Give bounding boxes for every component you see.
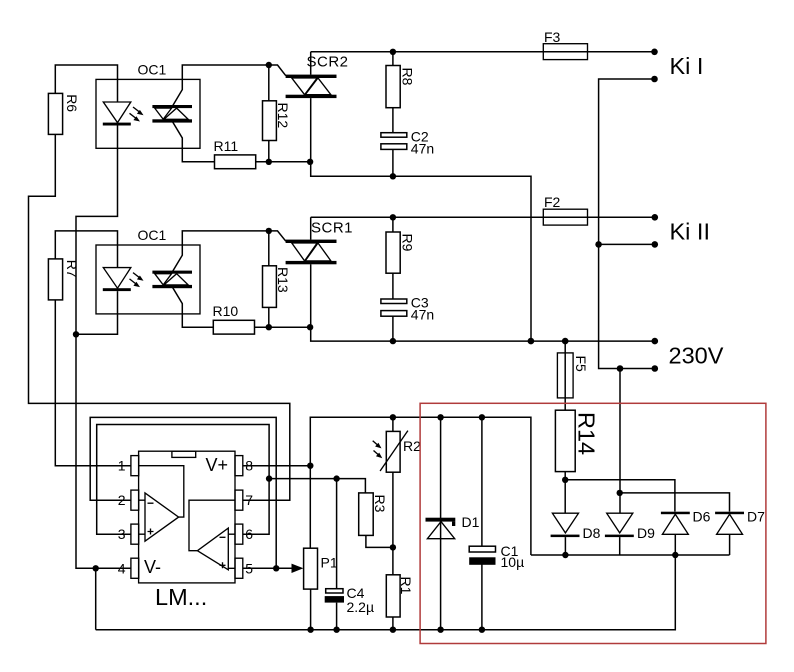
P1 wiper arrow <box>292 564 304 573</box>
resistor R7 <box>48 259 79 300</box>
wire pin 3 loop to pin 6 <box>97 425 269 535</box>
zener diode D1 <box>426 417 480 629</box>
wire rectifier bottom rail <box>531 554 730 556</box>
svg-text:7: 7 <box>245 492 253 508</box>
svg-text:R13: R13 <box>275 267 291 293</box>
pin 3 <box>118 524 139 544</box>
wire SCR1 anode riser and rail to Ki II <box>311 217 655 239</box>
svg-text:D8: D8 <box>583 525 601 541</box>
svg-text:R8: R8 <box>400 68 416 86</box>
svg-text:R7: R7 <box>64 260 80 278</box>
svg-text:R14: R14 <box>574 412 600 455</box>
svg-text:4: 4 <box>118 560 126 576</box>
svg-text:D6: D6 <box>693 508 711 524</box>
resistor R3 <box>359 493 393 548</box>
resistor R13 <box>263 231 292 327</box>
svg-text:D9: D9 <box>637 525 655 541</box>
svg-text:230V: 230V <box>669 342 724 368</box>
LED light arrows <box>130 273 144 288</box>
node Ki II terminals <box>595 214 658 248</box>
node 230V terminals <box>528 338 658 372</box>
svg-text:P1: P1 <box>321 554 338 570</box>
LED light arrows <box>130 107 144 122</box>
pin 2 <box>118 490 139 510</box>
wire pin 2 feedback loop to pin 5 node <box>90 417 276 568</box>
pin 6 <box>235 524 253 544</box>
junction dots rectifier <box>562 477 679 559</box>
red highlight box <box>420 403 766 643</box>
triac inside OC1 top <box>152 105 192 123</box>
svg-text:Ki I: Ki I <box>670 53 704 79</box>
resistor R6 <box>48 93 79 134</box>
potentiometer P1 <box>304 548 338 630</box>
wire OC1#2 triac top to SCR1 gate rail <box>172 231 268 272</box>
resistor R9 <box>386 232 416 273</box>
optocoupler OC1 (bottom) <box>96 227 200 314</box>
triac SCR1 <box>286 220 353 265</box>
svg-text:F5: F5 <box>573 356 589 373</box>
wire R9 to C3 <box>392 273 394 299</box>
junction dots channel 1 <box>266 49 397 180</box>
svg-text:V+: V+ <box>206 455 229 475</box>
node Ki I terminals <box>651 49 658 83</box>
resistor R12 <box>263 65 292 162</box>
svg-text:1: 1 <box>118 458 126 474</box>
resistor R10 <box>213 303 255 334</box>
optocoupler OC1 (top) <box>96 62 200 149</box>
wire pin 6/3 node tap to R3 top <box>269 479 365 493</box>
wire C2 bottom <box>392 149 394 176</box>
wire R14 bottom to D8 top node <box>564 472 566 514</box>
svg-text:47n: 47n <box>411 307 434 323</box>
wire R7 bottom to pin 1 of LM <box>55 300 131 466</box>
op-amp A triangle <box>139 466 184 542</box>
wire R9 top <box>392 217 394 232</box>
wire R6 top to OC1 LED anode <box>55 65 117 102</box>
junction dots channel 2 <box>73 214 396 344</box>
wire D9 node to D7 top <box>620 493 730 512</box>
svg-text:F3: F3 <box>544 29 561 45</box>
wire V+ node riser and top rail <box>310 417 531 555</box>
svg-text:V-: V- <box>144 557 161 577</box>
wire C3 bottom <box>392 316 394 341</box>
wire D8 node to D6 top <box>565 480 675 512</box>
wire OC1 triac top to SCR2 gate rail <box>172 65 268 106</box>
triac inside OC1 bottom <box>152 271 192 289</box>
svg-text:OC1: OC1 <box>138 62 167 78</box>
svg-text:OC1: OC1 <box>138 227 167 243</box>
pin 4 <box>118 558 139 578</box>
junction dots IC area <box>93 463 340 572</box>
wire R8 to C2 <box>392 108 394 133</box>
resistor R11 <box>214 138 256 169</box>
svg-text:R6: R6 <box>64 94 80 112</box>
svg-text:R2: R2 <box>403 438 421 454</box>
wire 230V to F5 <box>564 341 566 410</box>
triac SCR2 <box>286 54 349 99</box>
pin 5 <box>235 558 253 578</box>
fuse F2 <box>543 194 587 225</box>
wire SCR1 gate <box>269 231 286 241</box>
svg-text:47n: 47n <box>411 140 434 156</box>
wire linking lower terminals (Ki I / Ki II / 230V) <box>599 79 655 369</box>
svg-text:SCR1: SCR1 <box>311 220 353 237</box>
svg-text:R3: R3 <box>372 495 388 513</box>
wire LED cathode chain down-left to pin 4 <box>76 126 131 569</box>
capacitor C1 10u <box>469 417 524 629</box>
junction dots red box area <box>307 414 485 633</box>
wire R10 to SCR1 cathode node <box>255 326 311 328</box>
wire R7 top to OC1 LED anode <box>55 231 117 268</box>
LED of OC1 bottom <box>103 268 131 292</box>
svg-text:R1: R1 <box>398 577 414 595</box>
svg-text:R9: R9 <box>400 234 416 252</box>
fuse F3 <box>543 29 587 60</box>
photoresistor R2 <box>373 417 421 575</box>
wire pin 4 junction riser to bottom rail <box>95 568 97 629</box>
wire SCR2 gate <box>269 65 286 76</box>
wire from 230V lower terminal down to D9 <box>619 369 621 514</box>
wire OC1 triac bottom to R11 <box>172 122 214 162</box>
diode D9 <box>605 513 655 555</box>
wire SCR1 cathode down and 230V rail <box>311 264 655 341</box>
wire OC1#2 triac bottom to R10 <box>172 287 213 327</box>
diode D7 <box>715 508 765 555</box>
capacitor C4 2.2u <box>325 479 374 630</box>
svg-text:SCR2: SCR2 <box>307 54 349 71</box>
wire pin 8 to V+ node <box>243 465 310 467</box>
resistor R14 <box>555 410 599 471</box>
svg-text:R12: R12 <box>275 103 291 129</box>
pin 8 <box>235 456 253 476</box>
op-amp IC U1 body LM <box>139 451 235 610</box>
svg-text:Ki II: Ki II <box>670 219 710 245</box>
wire R8 top <box>392 52 394 66</box>
wire pin 5 to P1 wiper <box>243 567 295 569</box>
pin 1 <box>118 456 139 476</box>
pin 7 <box>235 490 253 510</box>
fuse F5 <box>557 353 589 398</box>
svg-text:R10: R10 <box>213 303 239 319</box>
svg-text:2.2µ: 2.2µ <box>347 599 375 615</box>
wire SCR2 cathode down and snubber rail right <box>311 98 531 341</box>
wire R6 bottom to pin 7 of LM <box>29 134 290 500</box>
capacitor C3 47n <box>381 295 434 323</box>
diode D8 <box>551 513 601 555</box>
LED of OC1 top <box>103 102 131 126</box>
capacitor C2 47n <box>381 128 434 156</box>
svg-text:F2: F2 <box>544 194 561 210</box>
diode D6 <box>661 508 711 555</box>
svg-text:R11: R11 <box>214 138 239 154</box>
wire SCR2 anode riser and top rail to Ki I <box>311 52 655 75</box>
svg-text:D7: D7 <box>747 508 765 524</box>
wire bottom ground rail <box>96 555 676 630</box>
wire LED2 cathode to left chain <box>76 291 118 334</box>
svg-text:LM...: LM... <box>155 584 207 610</box>
resistor R8 <box>386 66 416 108</box>
svg-text:10µ: 10µ <box>501 554 525 570</box>
op-amp B triangle <box>189 500 235 570</box>
wire R11 to SCR2 cathode node <box>256 161 311 163</box>
svg-text:D1: D1 <box>462 514 480 530</box>
resistor R1 <box>386 575 414 630</box>
